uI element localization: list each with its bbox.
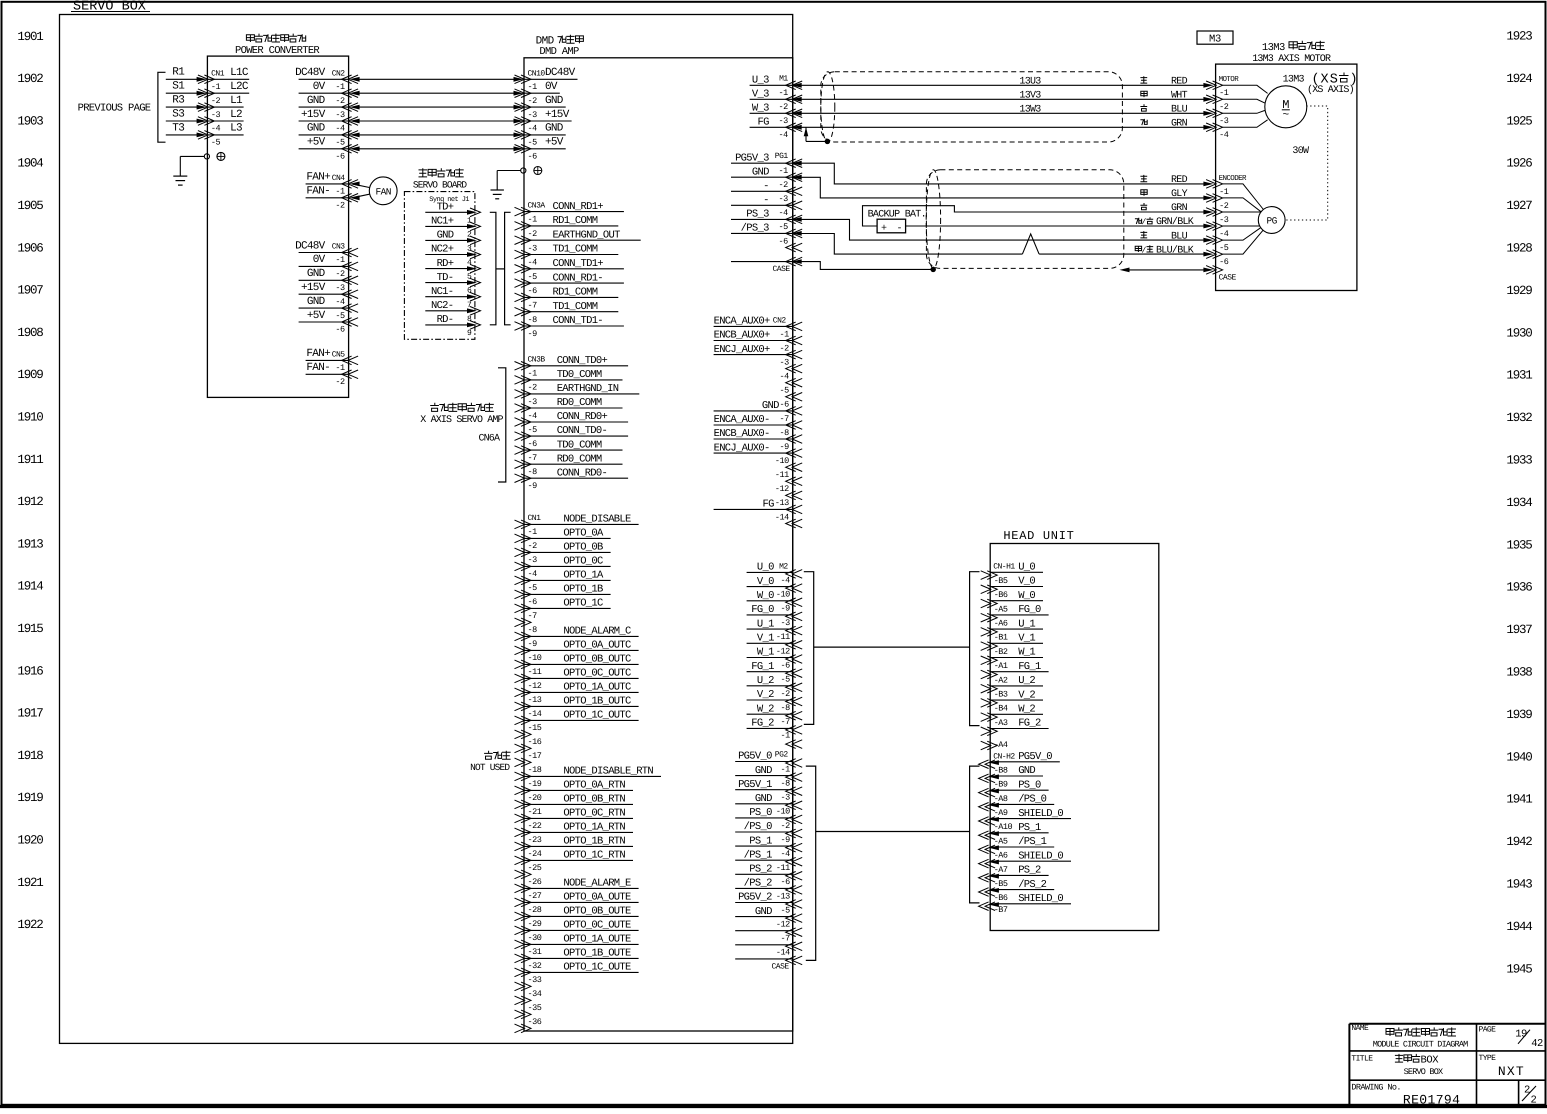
svg-text:V_2: V_2 bbox=[1018, 689, 1035, 701]
svg-text:-5: -5 bbox=[528, 138, 538, 148]
svg-text:NC1+: NC1+ bbox=[431, 216, 454, 228]
svg-text:RD+: RD+ bbox=[437, 258, 454, 270]
svg-text:L1: L1 bbox=[230, 95, 243, 107]
ground symbol (power converter) bbox=[173, 176, 187, 185]
svg-text:-6: -6 bbox=[528, 597, 538, 607]
wire S1 to CN1 pin 1 bbox=[166, 81, 207, 96]
svg-text:TITLE: TITLE bbox=[1351, 1055, 1373, 1064]
svg-text:1926: 1926 bbox=[1506, 157, 1532, 171]
svg-text:OPTO_1A_OUTE: OPTO_1A_OUTE bbox=[563, 934, 631, 946]
svg-text:-1: -1 bbox=[778, 166, 788, 176]
svg-text:-14: -14 bbox=[776, 948, 790, 958]
svg-text:SERVO BOX: SERVO BOX bbox=[1404, 1067, 1443, 1077]
svg-text:-31: -31 bbox=[528, 947, 542, 957]
svg-text:-12: -12 bbox=[776, 920, 790, 930]
svg-text:FG_2: FG_2 bbox=[1018, 718, 1041, 730]
earth symbol at power converter bbox=[217, 152, 225, 160]
svg-text:W_3: W_3 bbox=[752, 103, 769, 115]
svg-text:1928: 1928 bbox=[1506, 242, 1532, 256]
svg-text:-1: -1 bbox=[335, 255, 345, 265]
svg-text:FAN-: FAN- bbox=[306, 362, 330, 374]
svg-text:-2: -2 bbox=[779, 343, 789, 353]
head unit block (box) bbox=[990, 544, 1159, 931]
svg-text:0V: 0V bbox=[545, 81, 558, 93]
power converter block U-PC (box) bbox=[207, 56, 348, 397]
svg-text:OPTO_0B: OPTO_0B bbox=[563, 542, 603, 554]
svg-text:-20: -20 bbox=[528, 793, 542, 803]
svg-text:-13: -13 bbox=[528, 695, 542, 705]
svg-text:-A1: -A1 bbox=[994, 661, 1008, 671]
svg-text:NXT: NXT bbox=[1498, 1064, 1525, 1079]
svg-text:U_1: U_1 bbox=[757, 618, 774, 630]
svg-text:CN10: CN10 bbox=[528, 69, 546, 78]
svg-text:FG_1: FG_1 bbox=[1018, 661, 1041, 673]
label: 13M3 (XS axis) inside motor box bbox=[1283, 73, 1359, 96]
svg-text:M2: M2 bbox=[779, 562, 788, 571]
svg-text:1909: 1909 bbox=[17, 368, 43, 382]
svg-text:CONN_RD1-: CONN_RD1- bbox=[553, 272, 603, 284]
svg-text:-16: -16 bbox=[528, 737, 542, 747]
svg-text:OPTO_1B_OUTC: OPTO_1B_OUTC bbox=[563, 696, 631, 708]
fan FAN1 (circle) wired to CN4 bbox=[350, 177, 398, 205]
svg-text:GND: GND bbox=[307, 268, 326, 280]
svg-text:0V: 0V bbox=[313, 254, 326, 266]
wire motor CASE to shield (arrow at shield) bbox=[1120, 268, 1214, 273]
svg-text:-6: -6 bbox=[335, 325, 345, 335]
svg-text:1939: 1939 bbox=[1506, 708, 1532, 722]
svg-text:13M3: 13M3 bbox=[1283, 75, 1305, 86]
svg-text:FG_1: FG_1 bbox=[751, 661, 774, 673]
svg-text:GND: GND bbox=[755, 906, 772, 918]
svg-text:-A3: -A3 bbox=[994, 718, 1008, 728]
svg-text:CN2: CN2 bbox=[332, 69, 346, 78]
svg-text:GND: GND bbox=[755, 765, 772, 777]
svg-text:ENCB_AUX0+: ENCB_AUX0+ bbox=[714, 330, 770, 342]
svg-text:-5: -5 bbox=[779, 386, 789, 396]
svg-text:CN3A: CN3A bbox=[528, 202, 546, 211]
svg-text:CN5: CN5 bbox=[332, 350, 346, 359]
servo board (dashed box) bbox=[404, 192, 475, 340]
svg-text:NODE_DISABLE: NODE_DISABLE bbox=[563, 514, 631, 526]
connector M2 (DMD amp head motor outputs) bbox=[747, 562, 803, 749]
svg-text:1912: 1912 bbox=[17, 495, 43, 509]
svg-text:-2: -2 bbox=[335, 201, 345, 211]
svg-text:-2: -2 bbox=[1219, 201, 1229, 211]
svg-text:-4: -4 bbox=[778, 208, 788, 218]
svg-text:GND: GND bbox=[307, 95, 326, 107]
connector CN2 (DMD amp aux encoder) bbox=[714, 316, 803, 528]
svg-text:-1: -1 bbox=[528, 215, 538, 225]
svg-text:-1: -1 bbox=[780, 764, 790, 774]
svg-text:FAN+: FAN+ bbox=[306, 348, 330, 360]
svg-text:1921: 1921 bbox=[17, 876, 43, 890]
svg-text:MODULE CIRCUIT DIAGRAM: MODULE CIRCUIT DIAGRAM bbox=[1373, 1039, 1468, 1049]
svg-text:W_0: W_0 bbox=[1018, 590, 1035, 602]
svg-text:FAN: FAN bbox=[376, 186, 391, 197]
svg-text:1927: 1927 bbox=[1506, 199, 1532, 213]
svg-text:-A5: -A5 bbox=[994, 836, 1008, 846]
svg-text:-2: -2 bbox=[780, 821, 790, 831]
svg-text:GND: GND bbox=[545, 95, 564, 107]
svg-text:WHT: WHT bbox=[1171, 91, 1188, 102]
svg-text:1919: 1919 bbox=[17, 791, 43, 805]
svg-text:1938: 1938 bbox=[1506, 666, 1532, 680]
svg-text:13M3: 13M3 bbox=[1262, 42, 1285, 54]
label: motor power 30W bbox=[1292, 146, 1309, 157]
svg-text:-A10: -A10 bbox=[994, 822, 1013, 832]
connector CN3A (Synqnet ring 1) bbox=[515, 201, 641, 339]
svg-text:-22: -22 bbox=[528, 821, 542, 831]
svg-text:NODE_ALARM_C: NODE_ALARM_C bbox=[563, 626, 631, 638]
svg-text:OPTO_0B_OUTC: OPTO_0B_OUTC bbox=[563, 654, 631, 666]
svg-text:1918: 1918 bbox=[17, 749, 43, 763]
svg-text:-28: -28 bbox=[528, 905, 542, 915]
ground symbol (DMD amp) bbox=[491, 190, 504, 199]
DMD amplifier block (box) bbox=[524, 58, 793, 1031]
wire GND CN2-2 to CN10-2 bbox=[350, 105, 524, 110]
svg-text:-A6: -A6 bbox=[994, 851, 1008, 861]
svg-text:~: ~ bbox=[1282, 110, 1289, 122]
svg-text:CONN_TD0+: CONN_TD0+ bbox=[557, 355, 608, 367]
svg-text:-1: -1 bbox=[335, 82, 345, 92]
label: power converter title (kanji + english) bbox=[235, 34, 320, 57]
svg-text:-7: -7 bbox=[780, 934, 790, 944]
svg-text:-2: -2 bbox=[335, 269, 345, 279]
svg-text:1930: 1930 bbox=[1506, 326, 1532, 340]
svg-text:-2: -2 bbox=[528, 229, 538, 239]
svg-text:-18: -18 bbox=[528, 765, 542, 775]
svg-text:-13: -13 bbox=[776, 891, 790, 901]
svg-text:-B5: -B5 bbox=[994, 879, 1008, 889]
svg-text:-5: -5 bbox=[780, 675, 790, 685]
connector J1 Synqnet on servo board bbox=[425, 196, 480, 338]
svg-text:-4: -4 bbox=[335, 124, 345, 134]
svg-text:SERVO BOX: SERVO BOX bbox=[73, 0, 146, 15]
connector MOTOR on motor bbox=[1206, 75, 1239, 140]
svg-text:-B8: -B8 bbox=[994, 765, 1008, 775]
svg-text:-12: -12 bbox=[528, 681, 542, 691]
svg-text:-8: -8 bbox=[528, 467, 538, 477]
svg-text:DRAWING No.: DRAWING No. bbox=[1351, 1082, 1401, 1092]
svg-text:-3: -3 bbox=[1219, 116, 1229, 126]
label: X axis servo amp / CN6A destination bbox=[420, 403, 503, 445]
svg-text:RD1_COMM: RD1_COMM bbox=[553, 215, 598, 227]
label: 13M3 axis motor title bbox=[1252, 41, 1331, 65]
svg-text:CN-H2: CN-H2 bbox=[993, 753, 1015, 762]
svg-text:ENCJ_AUX0-: ENCJ_AUX0- bbox=[714, 442, 770, 454]
connector CN10 (DMD amp power input) bbox=[515, 67, 578, 161]
svg-text:1942: 1942 bbox=[1506, 835, 1532, 849]
wire R1 to CN1 pin CN1 bbox=[166, 67, 207, 82]
backup battery BT1 with wiring to GRN/GRN-BLK pair bbox=[863, 206, 1214, 235]
svg-text:TD-: TD- bbox=[437, 272, 454, 284]
svg-text:-5: -5 bbox=[211, 138, 221, 148]
svg-text:-32: -32 bbox=[528, 961, 542, 971]
svg-text:-5: -5 bbox=[335, 311, 345, 321]
svg-text:-: - bbox=[763, 181, 769, 193]
svg-text:1908: 1908 bbox=[17, 326, 43, 340]
svg-text:-6: -6 bbox=[528, 286, 538, 296]
svg-text:/PS_1: /PS_1 bbox=[744, 849, 772, 861]
svg-text:-: - bbox=[763, 195, 769, 207]
svg-text:-4: -4 bbox=[335, 297, 345, 307]
wire: sensor cable bundle PG2 to CN-H2 bbox=[816, 831, 970, 833]
svg-text:PS_0: PS_0 bbox=[749, 807, 772, 819]
svg-text:U_2: U_2 bbox=[1018, 675, 1035, 687]
svg-text:M3: M3 bbox=[1209, 34, 1221, 46]
svg-text:ENCJ_AUX0+: ENCJ_AUX0+ bbox=[714, 344, 770, 356]
svg-text:30W: 30W bbox=[1292, 146, 1309, 157]
svg-text:TD1_COMM: TD1_COMM bbox=[553, 244, 598, 256]
svg-text:NODE_ALARM_E: NODE_ALARM_E bbox=[563, 878, 631, 890]
svg-text:-6: -6 bbox=[528, 152, 538, 162]
svg-text:2: 2 bbox=[1531, 1095, 1537, 1107]
svg-text:-33: -33 bbox=[528, 975, 542, 985]
svg-text:PG: PG bbox=[1266, 216, 1277, 227]
svg-text:1945: 1945 bbox=[1506, 962, 1532, 976]
svg-text:-3: -3 bbox=[780, 793, 790, 803]
svg-text:-B6: -B6 bbox=[994, 893, 1008, 903]
svg-text:42: 42 bbox=[1531, 1038, 1543, 1050]
svg-text:-4: -4 bbox=[528, 569, 538, 579]
svg-text:-14: -14 bbox=[528, 709, 542, 719]
svg-text:-4: -4 bbox=[211, 124, 221, 134]
wire S3 to CN1 pin 3 bbox=[166, 108, 207, 123]
svg-text:13W3: 13W3 bbox=[1019, 104, 1041, 115]
svg-text:1943: 1943 bbox=[1506, 878, 1532, 892]
svg-text:+: + bbox=[881, 224, 887, 235]
svg-text:-7: -7 bbox=[780, 717, 790, 727]
svg-text:-: - bbox=[897, 224, 902, 235]
node: chassis ground at CN10 (open circle) bbox=[521, 168, 526, 173]
reference tag M3 (boxed) bbox=[1197, 31, 1233, 46]
svg-text:-12: -12 bbox=[776, 646, 790, 656]
svg-text:1905: 1905 bbox=[17, 199, 43, 213]
svg-text:-4: -4 bbox=[780, 849, 790, 859]
svg-text:-6: -6 bbox=[779, 400, 789, 410]
svg-text:OPTO_0A_OUTE: OPTO_0A_OUTE bbox=[563, 892, 631, 904]
svg-text:W_2: W_2 bbox=[1018, 704, 1035, 716]
svg-text:CONN_TD1+: CONN_TD1+ bbox=[553, 258, 604, 270]
svg-text:PS_0: PS_0 bbox=[1018, 779, 1041, 791]
svg-text:+15V: +15V bbox=[301, 109, 326, 121]
wire: motor cable bundle M2 to CN-H1 bbox=[814, 646, 970, 648]
svg-text:CN1: CN1 bbox=[528, 514, 542, 523]
svg-text:-10: -10 bbox=[775, 456, 789, 466]
svg-text:1935: 1935 bbox=[1506, 538, 1532, 552]
svg-text:U_3: U_3 bbox=[752, 75, 769, 87]
svg-text:W_0: W_0 bbox=[757, 590, 774, 602]
svg-text:RED: RED bbox=[1171, 175, 1188, 186]
wire from CN1 ground circle to ground symbol bbox=[180, 156, 204, 176]
wire V_3 / 13V3 (WHT) bbox=[800, 90, 1213, 101]
wire +5V CN2-5 to CN10-5 bbox=[350, 146, 524, 151]
svg-text:RD1_COMM: RD1_COMM bbox=[553, 287, 598, 299]
svg-text:FG_0: FG_0 bbox=[1018, 604, 1041, 616]
wire DC48V CN2-0 to CN10-0 bbox=[350, 77, 524, 82]
svg-text:-4: -4 bbox=[779, 372, 789, 382]
svg-text:-3: -3 bbox=[778, 194, 788, 204]
svg-text:-30: -30 bbox=[528, 933, 542, 943]
svg-text:-7: -7 bbox=[779, 414, 789, 424]
title block: TYPE cell NXT bbox=[1479, 1054, 1525, 1079]
svg-text:-10: -10 bbox=[528, 653, 542, 663]
svg-text:1937: 1937 bbox=[1506, 623, 1532, 637]
svg-text:V_0: V_0 bbox=[1018, 576, 1035, 588]
svg-text:13U3: 13U3 bbox=[1019, 76, 1041, 87]
svg-text:PS_1: PS_1 bbox=[1018, 822, 1041, 834]
svg-text:-4: -4 bbox=[780, 575, 790, 585]
svg-text:/PS_1: /PS_1 bbox=[1018, 836, 1046, 848]
FG branch to motor cable shield (junction dot) bbox=[804, 127, 830, 143]
svg-text:-5: -5 bbox=[335, 138, 345, 148]
svg-text:-9: -9 bbox=[528, 329, 538, 339]
svg-text:CONN_RD0+: CONN_RD0+ bbox=[557, 411, 608, 423]
svg-text:-9: -9 bbox=[780, 604, 790, 614]
svg-text:T3: T3 bbox=[172, 122, 184, 134]
svg-text:-3: -3 bbox=[528, 555, 538, 565]
svg-text:OPTO_1A_RTN: OPTO_1A_RTN bbox=[563, 822, 625, 834]
svg-text:DMD AMP: DMD AMP bbox=[539, 46, 579, 58]
svg-text:1941: 1941 bbox=[1506, 793, 1532, 807]
wire GND to encoder GLY (stepped) bbox=[800, 177, 1213, 200]
svg-text:+5V: +5V bbox=[545, 137, 564, 149]
wire PG5V_3 to encoder RED (stepped) bbox=[800, 163, 1213, 186]
svg-text:/PS_2: /PS_2 bbox=[1018, 879, 1046, 891]
svg-text:-B5: -B5 bbox=[994, 576, 1008, 586]
svg-text:-B4: -B4 bbox=[994, 704, 1008, 714]
svg-text:-3: -3 bbox=[528, 397, 538, 407]
svg-text:GRN: GRN bbox=[1171, 203, 1188, 214]
label: DMD amp title bbox=[536, 35, 584, 58]
svg-text:L3: L3 bbox=[230, 123, 242, 135]
svg-text:OPTO_1C_OUTC: OPTO_1C_OUTC bbox=[563, 710, 631, 722]
svg-text:NOT USED: NOT USED bbox=[470, 762, 510, 773]
svg-text:-24: -24 bbox=[528, 849, 542, 859]
svg-text:OPTO_1A_OUTC: OPTO_1A_OUTC bbox=[563, 682, 631, 694]
svg-text:-9: -9 bbox=[780, 835, 790, 845]
svg-text:-B2: -B2 bbox=[994, 647, 1008, 657]
svg-text:-2: -2 bbox=[335, 377, 345, 387]
svg-text:-8: -8 bbox=[779, 428, 789, 438]
svg-text:PS_2: PS_2 bbox=[749, 864, 772, 876]
svg-text:DC48V: DC48V bbox=[295, 240, 326, 252]
svg-text:BLU/BLK: BLU/BLK bbox=[1156, 244, 1194, 256]
connector CN1 (DMD amp control I/O) bbox=[515, 514, 662, 1033]
svg-text:-13: -13 bbox=[775, 498, 789, 508]
connector PG2 (DMD amp head sensor inputs) bbox=[735, 750, 802, 971]
svg-text:1906: 1906 bbox=[17, 241, 43, 255]
svg-text:-B6: -B6 bbox=[994, 590, 1008, 600]
svg-text:U_2: U_2 bbox=[757, 675, 774, 687]
bracket: PG2 cable bundle (DMD side) bbox=[806, 766, 816, 960]
svg-text:RD0_COMM: RD0_COMM bbox=[557, 453, 602, 465]
wire W_3 / 13W3 (BLU) bbox=[800, 104, 1213, 115]
svg-text:PG5V_0: PG5V_0 bbox=[738, 751, 772, 763]
svg-text:-3: -3 bbox=[528, 243, 538, 253]
svg-text:GND: GND bbox=[752, 166, 769, 178]
svg-text:CN2: CN2 bbox=[773, 316, 787, 325]
svg-text:CN-H1: CN-H1 bbox=[993, 563, 1015, 572]
svg-text:19: 19 bbox=[1515, 1028, 1527, 1040]
svg-text:1923: 1923 bbox=[1506, 30, 1532, 44]
svg-text:GLY: GLY bbox=[1171, 189, 1188, 200]
svg-text:OPTO_0C_OUTC: OPTO_0C_OUTC bbox=[563, 668, 631, 680]
svg-text:-2: -2 bbox=[211, 96, 221, 106]
earth symbol at DMD amp bbox=[534, 167, 542, 175]
svg-text:V_1: V_1 bbox=[1018, 633, 1035, 645]
svg-text:-A8: -A8 bbox=[994, 794, 1008, 804]
wire /PS_3 to encoder BLU/BLK (stepped, with slack mark) bbox=[800, 234, 1213, 257]
svg-text:-1: -1 bbox=[1219, 187, 1229, 197]
svg-text:-29: -29 bbox=[528, 919, 542, 929]
svg-text:-3: -3 bbox=[778, 116, 788, 126]
svg-text:-A9: -A9 bbox=[994, 808, 1008, 818]
svg-text:BACKUP BAT.: BACKUP BAT. bbox=[868, 209, 926, 220]
connector PG1 (DMD amp encoder port) bbox=[731, 152, 802, 274]
svg-text:-1: -1 bbox=[211, 82, 221, 92]
svg-text:1932: 1932 bbox=[1506, 411, 1532, 425]
svg-text:1940: 1940 bbox=[1506, 750, 1532, 764]
svg-text:-5: -5 bbox=[780, 905, 790, 915]
label: HEAD UNIT title bbox=[1003, 529, 1074, 543]
svg-text:-A2: -A2 bbox=[994, 675, 1008, 685]
svg-text:1922: 1922 bbox=[17, 918, 43, 932]
svg-text:-36: -36 bbox=[528, 1017, 542, 1027]
node: chassis ground at CN1-5 (open circle) bbox=[204, 154, 209, 159]
wire R3 to CN1 pin 2 bbox=[166, 95, 207, 110]
svg-text:CONN_TD1-: CONN_TD1- bbox=[553, 315, 603, 327]
svg-text:FAN+: FAN+ bbox=[306, 172, 330, 184]
svg-text:-15: -15 bbox=[528, 723, 542, 733]
svg-text:V_0: V_0 bbox=[757, 576, 774, 588]
svg-text:-9: -9 bbox=[528, 481, 538, 491]
svg-text:R1: R1 bbox=[172, 67, 185, 79]
svg-text:-2: -2 bbox=[778, 102, 788, 112]
label: NOT USED pins CN1-15..17 bbox=[470, 751, 511, 773]
svg-text:S1: S1 bbox=[172, 81, 185, 93]
svg-text:-5: -5 bbox=[528, 425, 538, 435]
bracket: J1 cable bundle (servo board side) bbox=[490, 212, 496, 324]
svg-text:1915: 1915 bbox=[17, 622, 43, 636]
svg-text:-35: -35 bbox=[528, 1003, 542, 1013]
svg-text:-4: -4 bbox=[528, 258, 538, 268]
svg-text:EARTHGND_OUT: EARTHGND_OUT bbox=[553, 229, 621, 241]
svg-text:DC48V: DC48V bbox=[295, 67, 326, 79]
svg-text:1904: 1904 bbox=[17, 157, 43, 171]
svg-text:PG1: PG1 bbox=[775, 152, 789, 161]
title block: NAME cell bbox=[1351, 1024, 1468, 1049]
svg-text:OPTO_1B_RTN: OPTO_1B_RTN bbox=[563, 836, 625, 848]
svg-text:8: 8 bbox=[467, 315, 472, 324]
wires DC48V/0V/GND/+15V/GND/+5V from CN2 to CN10 bbox=[350, 77, 524, 151]
svg-text:PG5V_0: PG5V_0 bbox=[1018, 751, 1052, 763]
svg-text:FG_0: FG_0 bbox=[751, 604, 774, 616]
svg-text:-B3: -B3 bbox=[994, 690, 1008, 700]
svg-text:ENCB_AUX0-: ENCB_AUX0- bbox=[714, 428, 770, 440]
svg-text:-3: -3 bbox=[1219, 215, 1229, 225]
svg-text:-8: -8 bbox=[528, 625, 538, 635]
svg-text:PS_3: PS_3 bbox=[746, 209, 769, 221]
svg-text:L2C: L2C bbox=[230, 81, 249, 93]
svg-text:-3: -3 bbox=[335, 283, 345, 293]
svg-text:ENCA_AUX0-: ENCA_AUX0- bbox=[714, 414, 770, 426]
svg-text:CN4: CN4 bbox=[332, 174, 346, 183]
svg-text:1916: 1916 bbox=[17, 664, 43, 678]
svg-text:2: 2 bbox=[1524, 1085, 1530, 1097]
svg-text:L2: L2 bbox=[230, 109, 242, 121]
svg-text:-6: -6 bbox=[780, 877, 790, 887]
